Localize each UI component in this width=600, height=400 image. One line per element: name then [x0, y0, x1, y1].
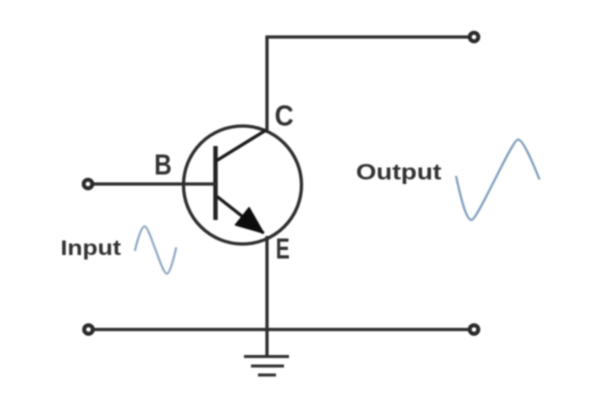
input sine wave — [135, 226, 176, 273]
svg-text:E: E — [276, 234, 290, 266]
transistor Q1 emitter arrowhead — [236, 208, 264, 233]
wire collector vertical — [265, 37, 268, 130]
terminal bottom left (open circle) — [84, 325, 93, 334]
svg-text:Input: Input — [61, 236, 122, 260]
transistor Q1 base bar — [213, 146, 217, 220]
terminal bottom right (open circle) — [470, 325, 479, 334]
wire top horizontal to output terminal — [265, 35, 469, 38]
svg-text:C: C — [275, 101, 294, 133]
wire base lead — [91, 182, 217, 185]
wire emitter vertical to ground — [265, 236, 268, 356]
svg-text:Output: Output — [356, 160, 442, 185]
transistor Q1 emitter diagonal — [217, 197, 264, 234]
terminal output top right (open circle) — [470, 33, 479, 42]
transistor Q1 collector diagonal — [216, 130, 267, 162]
wire bottom horizontal — [92, 328, 469, 331]
output sine wave — [456, 140, 540, 221]
ground symbol — [244, 357, 289, 376]
terminal input (open circle) — [84, 180, 93, 189]
transistor Q1 circle — [184, 126, 302, 244]
svg-text:B: B — [154, 150, 172, 182]
